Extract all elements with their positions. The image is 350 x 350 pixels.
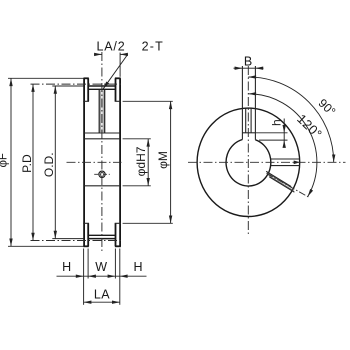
svg-text:H: H (133, 260, 142, 274)
svg-text:φF: φF (0, 153, 9, 167)
svg-text:B: B (244, 55, 252, 69)
svg-text:LA/2: LA/2 (97, 39, 126, 53)
svg-text:H: H (62, 260, 71, 274)
svg-text:2-T: 2-T (142, 39, 164, 53)
svg-text:P.D: P.D (20, 154, 34, 173)
svg-text:LA: LA (94, 288, 110, 302)
svg-text:φM: φM (156, 151, 170, 169)
svg-text:W: W (95, 260, 107, 274)
svg-text:h: h (270, 119, 284, 126)
svg-text:O.D.: O.D. (42, 152, 56, 177)
svg-text:φdH7: φdH7 (134, 146, 148, 176)
